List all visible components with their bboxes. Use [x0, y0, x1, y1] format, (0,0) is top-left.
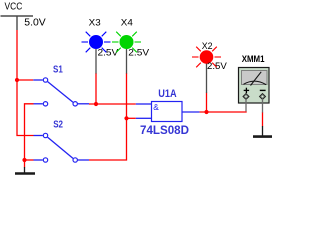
probe X2: [192, 41, 228, 93]
svg-text:2.5V: 2.5V: [128, 47, 150, 57]
wire S1 pole to U1A input A: [89, 103, 136, 105]
svg-text:X2: X2: [202, 41, 213, 51]
node junction X3 / input A: [94, 102, 98, 106]
node junction X4 / input B: [124, 116, 128, 120]
svg-text:2.5V: 2.5V: [207, 61, 228, 71]
svg-text:5.0V: 5.0V: [24, 18, 46, 29]
probe X3: [82, 18, 120, 74]
svg-text:&: &: [153, 103, 159, 112]
wire XMM1 minus to ground: [262, 113, 264, 127]
wire U1A output to XMM1 plus: [200, 111, 247, 113]
wire junction down to ground: [24, 160, 26, 168]
svg-text:S2: S2: [53, 120, 63, 131]
svg-text:74LS08D: 74LS08D: [140, 125, 189, 137]
ground (right): [253, 126, 272, 137]
multimeter XMM1: [239, 54, 270, 113]
wire X2 pin red segment: [206, 93, 208, 113]
node junction ground rail: [22, 158, 26, 162]
wire S2 throw2 to ground junction: [25, 159, 34, 161]
node junction at VCC rail / S1: [15, 78, 19, 82]
switch S2: [34, 120, 90, 163]
wire S1 throw2 to GND rail: [25, 104, 34, 160]
op-amp U1A 74LS08D AND gate: [136, 88, 200, 137]
wire junction to S1 throw1: [17, 79, 33, 81]
wire X4 pin red vertical down to S2 pole net: [89, 73, 127, 160]
svg-text:VCC: VCC: [5, 2, 23, 13]
svg-text:2.5V: 2.5V: [98, 47, 120, 57]
svg-text:X3: X3: [89, 18, 101, 28]
power VCC symbol: [1, 2, 47, 30]
node junction output / X2: [204, 110, 208, 114]
wire X3 pin red segment: [95, 73, 97, 104]
wire VCC rail vertical: [17, 30, 34, 136]
svg-text:X4: X4: [121, 18, 133, 28]
svg-text:U1A: U1A: [158, 88, 176, 100]
switch S1: [33, 64, 89, 106]
wire junction to U1A input B: [127, 117, 136, 119]
svg-text:XMM1: XMM1: [242, 54, 265, 65]
ground (left): [15, 167, 35, 174]
svg-text:S1: S1: [53, 64, 63, 75]
probe X4: [112, 18, 150, 74]
